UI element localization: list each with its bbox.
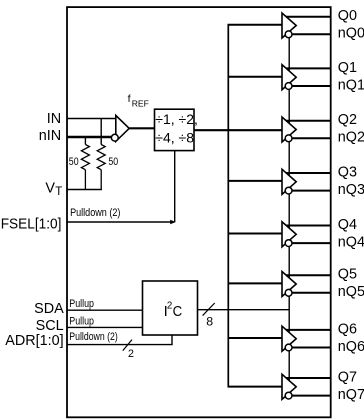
svg-text:50: 50 [69, 156, 79, 168]
svg-text:V: V [45, 181, 55, 197]
I2C block U3 [143, 281, 198, 335]
svg-text:nQ0: nQ0 [338, 26, 364, 42]
output buffer Q6 [282, 326, 330, 351]
wire: branch to buffer 3 [228, 180, 283, 182]
bus-width slash (2) on ADR [123, 340, 132, 351]
svg-text:nQ2: nQ2 [338, 130, 364, 146]
output buffer Q1 [282, 65, 330, 90]
wire: branch to buffer 4 [228, 233, 283, 235]
wire: divider output to buffer 2 [194, 129, 283, 131]
svg-text:SCL: SCL [36, 318, 64, 334]
output buffer Q5 [282, 272, 330, 297]
svg-text:÷4, ÷8: ÷4, ÷8 [155, 129, 194, 145]
input buffer U1 [116, 115, 129, 141]
svg-text:nQ6: nQ6 [338, 339, 364, 355]
svg-text:Pullup: Pullup [69, 298, 94, 310]
output buffer Q2 [282, 117, 330, 142]
wire: I2C output 8-bit control [198, 309, 290, 311]
svg-text:2: 2 [167, 301, 172, 312]
wire: SDA input [67, 309, 143, 311]
svg-text:IN: IN [47, 111, 61, 127]
svg-text:nQ7: nQ7 [338, 387, 364, 403]
wire: SCL input [67, 326, 143, 328]
svg-text:Q4: Q4 [338, 217, 357, 233]
svg-text:nQ4: nQ4 [338, 235, 364, 251]
wire: VT termination [67, 189, 102, 191]
svg-text:Q2: Q2 [338, 112, 357, 128]
svg-text:Q6: Q6 [338, 321, 357, 337]
wire: IN input [67, 118, 116, 120]
chip outline [67, 7, 331, 417]
bus-width slash (8) [203, 303, 215, 316]
output buffer Q4 [282, 222, 330, 247]
wire: input distribution bus vertical [227, 24, 229, 387]
svg-text:f: f [128, 93, 131, 105]
input buffer inversion bubble [111, 134, 118, 141]
svg-text:ADR[1:0]: ADR[1:0] [5, 333, 63, 349]
output buffer Q0 [282, 13, 330, 38]
resistor R2 50 ohm [97, 145, 105, 190]
divider block U2 [155, 109, 195, 150]
wire: fREF buffer to divider (bold) [129, 127, 154, 129]
wire: branch to buffer 7 [228, 386, 283, 388]
svg-text:50: 50 [108, 156, 118, 168]
wire: branch to buffer 0 [228, 24, 283, 26]
svg-text:Q1: Q1 [338, 60, 357, 76]
svg-text:8: 8 [206, 315, 213, 329]
resistor R1 50 ohm [81, 145, 89, 190]
svg-text:REF: REF [132, 99, 149, 109]
svg-text:2: 2 [128, 348, 134, 360]
wire: nIN input (bold) [67, 136, 112, 138]
wire: nIN to R1 stub [84, 137, 86, 145]
svg-text:÷1, ÷2,: ÷1, ÷2, [155, 111, 198, 127]
wire: branch to buffer 1 [228, 76, 283, 78]
svg-text:T: T [55, 186, 62, 198]
output buffer Q7 [282, 374, 330, 399]
svg-text:Q5: Q5 [338, 267, 357, 283]
svg-text:nIN: nIN [39, 128, 61, 144]
svg-text:Pulldown (2): Pulldown (2) [70, 207, 120, 219]
wire: FSEL input with arrowhead [67, 221, 171, 223]
svg-text:nQ5: nQ5 [338, 284, 364, 300]
wire: ADR input L-bend [67, 335, 172, 345]
wire: branch to buffer 6 [228, 337, 283, 339]
svg-text:Q3: Q3 [338, 164, 357, 180]
wire: branch to buffer 5 [228, 282, 283, 284]
svg-text:Q7: Q7 [338, 369, 357, 385]
node: output control bus (vertical, behind buffers) [288, 34, 290, 395]
svg-text:nQ1: nQ1 [338, 77, 364, 93]
svg-text:Pullup: Pullup [69, 315, 94, 327]
wire: divider FSEL select vertical [174, 151, 176, 222]
wire: IN to R2 vertical [100, 119, 102, 145]
svg-text:nQ3: nQ3 [338, 182, 364, 198]
svg-text:FSEL[1:0]: FSEL[1:0] [1, 217, 62, 233]
output buffer Q3 [282, 169, 330, 194]
svg-text:SDA: SDA [34, 301, 64, 317]
svg-text:C: C [173, 303, 183, 320]
svg-text:Pulldown (2): Pulldown (2) [69, 331, 118, 343]
svg-text:Q0: Q0 [338, 8, 357, 24]
